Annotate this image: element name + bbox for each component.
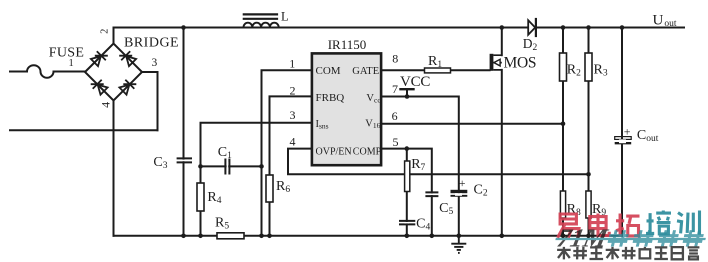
svg-text:+: + (459, 176, 466, 190)
wire bottom rail (114, 235, 623, 237)
svg-text:FUSE: FUSE (49, 45, 84, 60)
junction V16 R2 R8 node (561, 121, 566, 126)
junction R8 bottom rail (561, 234, 566, 239)
wire fuse to bridge (54, 71, 86, 73)
wire node 4 down (113, 101, 115, 236)
svg-text:2: 2 (290, 83, 296, 97)
resistor R9 (586, 191, 591, 218)
wire MOS source (501, 70, 503, 236)
junction C3 top rail (181, 25, 186, 30)
resistor R6 (266, 175, 273, 202)
svg-text:BRIDGE: BRIDGE (124, 35, 179, 50)
bridge diode D upper-right (119, 51, 136, 66)
bridge diode D upper-left (91, 51, 108, 66)
svg-text:3: 3 (152, 57, 158, 69)
svg-text:VCC: VCC (400, 74, 430, 90)
junction Cout top rail (620, 25, 625, 30)
wire pin6 V16 (382, 123, 563, 125)
svg-text:GATE: GATE (352, 66, 379, 77)
svg-text:1: 1 (69, 58, 74, 69)
capacitor Cout electrolytic (615, 137, 632, 140)
svg-text:6: 6 (392, 109, 398, 123)
junction R3 top rail (586, 25, 591, 30)
svg-text:FRBQ: FRBQ (316, 92, 345, 104)
svg-text:L: L (281, 9, 289, 23)
watermark teal italic row (553, 224, 708, 253)
watermark logo red chars (558, 214, 580, 238)
svg-text:COM: COM (316, 65, 341, 77)
junction R2 top rail (561, 25, 566, 30)
bridge diamond (85, 44, 142, 101)
resistor R5 (217, 233, 244, 239)
bridge diode D lower-left (91, 80, 108, 95)
junction MOS source bottom rail (500, 234, 505, 239)
svg-text:+: + (624, 125, 631, 139)
junction R4 bottom rail (198, 234, 203, 239)
watermark slogan row (557, 247, 571, 260)
junction C1 COM node (259, 164, 264, 169)
wire MOS drain (501, 28, 503, 56)
junction R6 bottom rail (267, 234, 272, 239)
wire pin8 GATE (382, 69, 490, 71)
junction C3 bottom rail (181, 234, 186, 239)
resistor R2 (560, 53, 567, 81)
wire pin3 Isns (201, 123, 312, 236)
wire AC input bottom (10, 129, 158, 131)
wire top rail (114, 27, 685, 29)
svg-text:4: 4 (290, 134, 296, 148)
wire node 2 up (113, 28, 115, 44)
wire VCC stub (406, 89, 408, 96)
junction Isns R4 C1 node (198, 164, 203, 169)
resistor R3 (585, 53, 592, 81)
svg-text:OVP/EN: OVP/EN (316, 147, 352, 158)
svg-text:7: 7 (392, 82, 398, 96)
wire C3 branch (183, 28, 185, 236)
wire AC input top (10, 71, 27, 73)
svg-text:2: 2 (99, 29, 110, 34)
wire pin5 COMP (382, 149, 432, 236)
IC U1 IR1150 body (312, 53, 381, 165)
wire pin1 COM (262, 70, 312, 236)
junction MOS drain top rail (500, 25, 505, 30)
junction COM bottom rail (259, 234, 264, 239)
svg-text:V16: V16 (365, 118, 380, 130)
svg-text:Vcc: Vcc (366, 93, 381, 105)
wire node 3 (142, 72, 158, 130)
inductor L (243, 14, 279, 27)
resistor R7 (405, 161, 410, 192)
fuse FUSE (27, 65, 54, 78)
wire pin2 FRBQ (270, 96, 312, 235)
capacitor C2 electrolytic (451, 190, 468, 193)
wire C1 horizontal (201, 165, 262, 167)
wire R7 C4 branch (406, 149, 408, 236)
wire Cout branch (621, 28, 623, 236)
svg-text:MOS: MOS (504, 55, 537, 72)
junction C5 bottom rail (430, 234, 435, 239)
resistor R1 (425, 68, 451, 73)
svg-text:3: 3 (290, 108, 296, 122)
junction ground node (457, 234, 462, 239)
capacitor C1 (225, 159, 229, 175)
wire pin4 OVP (288, 149, 589, 175)
svg-text:Isns: Isns (316, 119, 329, 131)
diode D2 (528, 18, 536, 37)
resistor R8 (560, 191, 565, 218)
transistor MOS (490, 54, 502, 71)
wire R2 R8 branch (562, 28, 564, 236)
ground (451, 236, 466, 253)
junction OVP R3 R9 node (586, 172, 591, 177)
junction VCC pin7 (405, 94, 410, 99)
capacitor C5 (425, 192, 438, 196)
resistor R4 (197, 183, 204, 211)
svg-text:COMP: COMP (353, 147, 382, 158)
svg-text:5: 5 (393, 135, 399, 149)
wire pin7 VCC (382, 97, 459, 236)
capacitor C4 (399, 221, 415, 225)
watermark logo teal chars (646, 211, 671, 234)
wire R3 R9 branch (588, 28, 590, 236)
watermark (553, 211, 708, 260)
junction COMP R7 node (405, 146, 410, 151)
svg-text:IR1150: IR1150 (328, 37, 367, 52)
svg-text:4: 4 (99, 102, 113, 108)
svg-text:1: 1 (289, 57, 295, 71)
capacitor C3 (177, 158, 192, 162)
junction R9 bottom rail (586, 234, 591, 239)
bridge diode D lower-right (119, 80, 136, 95)
svg-text:8: 8 (392, 51, 398, 65)
junction C4 bottom rail (405, 234, 410, 239)
